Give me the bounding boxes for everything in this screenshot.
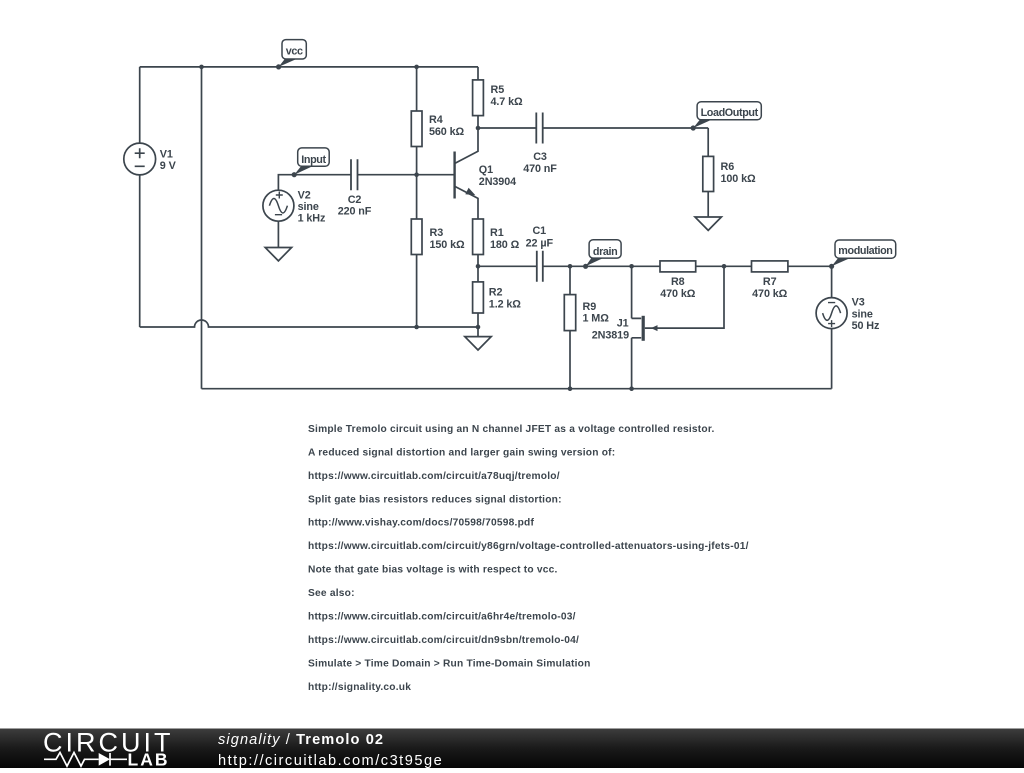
svg-text:50 Hz: 50 Hz [852,320,880,332]
svg-text:Note that gate bias voltage is: Note that gate bias voltage is with resp… [308,565,558,576]
voltage source V3 sine 50Hz [816,298,847,329]
voltage source V2 sine 1kHz [263,190,294,221]
svg-text:drain: drain [593,246,617,258]
svg-text:Simple Tremolo circuit using a: Simple Tremolo circuit using an N channe… [308,424,715,435]
svg-text:150 kΩ: 150 kΩ [430,239,466,251]
svg-text:180 Ω: 180 Ω [490,239,520,251]
svg-text:https://www.circuitlab.com/cir: https://www.circuitlab.com/circuit/a78uq… [308,471,560,482]
transistor Q1 2N3904 NPN [455,128,478,219]
junction R8 R7 gate node [722,264,727,269]
svg-text:9 V: 9 V [160,160,177,172]
svg-text:C3: C3 [533,151,547,163]
voltage source V1 9V DC [124,143,156,175]
resistor R4 560k body [411,111,422,147]
junction top rail x=201.5 [199,65,204,70]
logo resistor zigzag and diode [44,753,127,767]
svg-text:2N3819: 2N3819 [592,329,629,341]
capacitor C3 plates [536,113,542,144]
junction R9 bottom rail [568,386,573,391]
svg-text:http://www.vishay.com/docs/705: http://www.vishay.com/docs/70598/70598.p… [308,518,534,529]
svg-text:R3: R3 [430,227,444,239]
wire C2 right plate to Q1 base [358,174,454,176]
svg-text:LAB: LAB [128,750,170,768]
wire R8 to R7 segment [696,265,752,267]
svg-text:560 kΩ: 560 kΩ [429,126,465,138]
net flags [276,40,896,269]
svg-text:Input: Input [301,154,326,166]
svg-text:http://signality.co.uk: http://signality.co.uk [308,682,411,693]
wire R3 bottom lead [416,255,418,328]
svg-text:470 nF: 470 nF [523,163,557,175]
wire C1 right plate through drain node to R8 [543,265,661,267]
svg-text:1 kHz: 1 kHz [298,213,326,225]
resistor R9 1M body [564,295,575,331]
wire J1 drain lead [631,266,633,318]
svg-text:V2: V2 [298,190,311,202]
svg-text:Simulate > Time Domain > Run T: Simulate > Time Domain > Run Time-Domain… [308,658,591,669]
junction R1R2 node [476,264,481,269]
wire input net V2 to C2 left plate [278,175,351,191]
svg-text:Q1: Q1 [479,164,493,176]
svg-text:R4: R4 [429,114,443,126]
capacitor C2 plates [351,159,358,190]
svg-text:vcc: vcc [286,46,303,58]
wire R5 top lead [477,67,479,80]
svg-text:470 kΩ: 470 kΩ [752,288,788,300]
wire R2 bottom lead to ground bus [477,313,479,327]
svg-text:4.7 kΩ: 4.7 kΩ [491,96,524,108]
svg-text:http://circuitlab.com/c3t95ge: http://circuitlab.com/c3t95ge [218,753,443,768]
ground symbol under R6 [695,217,721,230]
wire R6 bottom lead to ground [707,192,709,218]
wire J1 source lead to bottom rail [631,338,633,389]
junction R4 top [414,65,419,70]
junction R9 top drain node [568,264,573,269]
svg-text:V1: V1 [160,148,173,160]
svg-text:220 nF: 220 nF [338,206,372,218]
svg-text:R2: R2 [489,287,503,299]
capacitor C1 plates [537,251,543,282]
junction J1 drain column [629,264,634,269]
wire R5 bottom lead to collector node [477,116,479,128]
wire R1 bottom lead to node [477,255,479,282]
svg-text:470 kΩ: 470 kΩ [660,288,696,300]
resistor R6 100k body [703,156,714,191]
resistor R5 4.7k body [473,80,484,116]
wire J1 gate from R8-R7 node [645,266,724,328]
node notes text block [308,424,749,693]
svg-text:C2: C2 [348,194,362,206]
wire node R1R2 to C1 left plate [478,265,537,267]
svg-text:signality / Tremolo 02: signality / Tremolo 02 [218,732,384,748]
resistor R7 470k body horizontal [752,261,788,272]
svg-text:modulation: modulation [838,245,892,257]
junction J1 source bottom rail [629,386,634,391]
svg-text:R8: R8 [671,276,685,288]
svg-text:Split gate bias resistors redu: Split gate bias resistors reduces signal… [308,494,562,505]
wire V3 bottom lead to bottom rail [831,329,833,389]
wire R3 top lead [416,175,418,219]
svg-text:100 kΩ: 100 kΩ [721,173,757,185]
svg-text:R9: R9 [583,301,597,313]
junction R3 bottom on ground bus [414,325,419,330]
wire R9 bottom lead to bottom rail [569,331,571,389]
node LoadOutput flag [691,102,762,131]
svg-text:V3: V3 [852,297,865,309]
ground symbol under V2 [265,221,291,261]
node modulation flag [829,240,896,269]
svg-text:R1: R1 [490,227,504,239]
svg-text:sine: sine [852,308,873,320]
svg-text:A reduced signal distortion an: A reduced signal distortion and larger g… [308,448,615,459]
wire bottom vcc rail [202,388,832,390]
svg-text:sine: sine [298,201,319,213]
resistor R8 470k body horizontal [660,261,696,272]
wire R7 to modulation corner [788,265,832,267]
svg-text:J1: J1 [617,318,629,330]
svg-text:R7: R7 [763,276,777,288]
svg-text:R5: R5 [491,84,505,96]
wire V1 bottom lead down to ground bus [139,175,141,327]
svg-text:https://www.circuitlab.com/cir: https://www.circuitlab.com/circuit/y86gr… [308,541,749,552]
svg-text:1.2 kΩ: 1.2 kΩ [489,298,522,310]
svg-text:2N3904: 2N3904 [479,176,516,188]
junction collector node [476,126,481,131]
transistor J1 2N3819 N-JFET [632,316,658,341]
ground symbol under R2 [465,327,491,350]
junction base wire R3R4 [414,172,419,177]
wire V1 top lead to vcc rail [139,67,141,143]
wire vcc top rail [140,66,478,68]
wire R6 top lead [707,128,709,156]
resistor R2 1.2k body [473,282,484,313]
node Input flag [292,148,330,177]
resistor R3 150k body [411,219,422,255]
node vcc flag [276,40,306,70]
svg-text:C1: C1 [532,225,546,237]
wire ground bus with hop over x=201.5 [140,320,478,327]
svg-text:See also:: See also: [308,588,355,599]
svg-text:https://www.circuitlab.com/cir: https://www.circuitlab.com/circuit/a6hr4… [308,612,576,623]
svg-text:22 µF: 22 µF [526,237,554,249]
wire modulation corner down to V3 top [831,266,833,297]
wire collector node to C3 left plate [478,127,536,129]
svg-text:LoadOutput: LoadOutput [701,107,759,119]
wire vertical vcc feed x=201.5 down to bottom rail [201,67,203,389]
junction R2 bottom ground [476,325,481,330]
svg-text:https://www.circuitlab.com/cir: https://www.circuitlab.com/circuit/dn9sb… [308,635,579,646]
wire R4 top lead [416,67,418,111]
wire R4 bottom lead [416,147,418,175]
resistor R1 180 body [473,219,484,255]
svg-text:R6: R6 [721,161,735,173]
wire R9 top lead [569,266,571,294]
wire C3 right plate to LoadOutput corner [543,127,709,129]
node drain flag [583,240,621,269]
svg-text:1 MΩ: 1 MΩ [583,313,610,325]
